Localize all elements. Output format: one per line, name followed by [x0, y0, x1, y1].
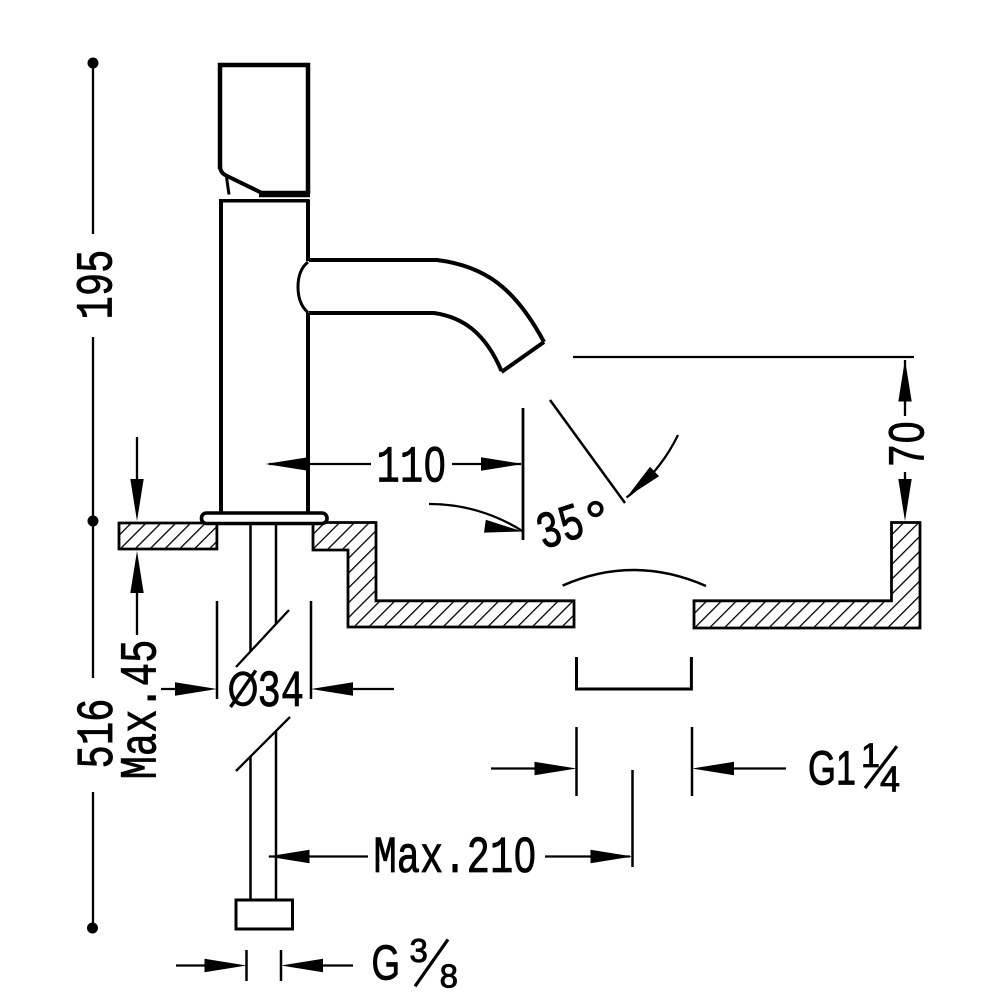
counter left slab (hatched) — [119, 523, 217, 549]
70 dimension — [573, 356, 914, 358]
label O34 — [231, 673, 255, 704]
35 degree water direction line — [550, 400, 625, 503]
svg-text:1: 1 — [861, 737, 880, 775]
Max.45 dimension — [136, 437, 138, 495]
faucet handle — [220, 65, 310, 195]
Max.210 dimension — [268, 850, 310, 863]
faucet body — [219, 200, 310, 513]
O34 dimension — [216, 601, 219, 699]
svg-text:G1: G1 — [808, 742, 856, 795]
drain hole U outline — [577, 657, 692, 689]
110 dimension — [269, 463, 371, 465]
svg-text:8: 8 — [440, 958, 458, 995]
svg-text:3: 3 — [410, 932, 428, 969]
water surface arc — [563, 570, 706, 586]
pipe break marks — [236, 610, 289, 667]
35 degree arc left — [429, 504, 523, 532]
spout outlet extension line — [522, 408, 525, 540]
35 degree arc right — [627, 435, 679, 498]
supply connector nut — [236, 900, 293, 929]
G1 1/4 dimension — [575, 727, 578, 796]
G 3/8 dimension — [245, 950, 248, 981]
svg-text:195: 195 — [68, 250, 127, 320]
basin right step (hatched) — [313, 523, 574, 628]
basin far-right step (hatched) — [694, 523, 920, 629]
svg-text:Max.210: Max.210 — [373, 829, 536, 888]
svg-text:34: 34 — [258, 663, 305, 722]
svg-text:G: G — [372, 936, 401, 990]
svg-text:4: 4 — [880, 759, 900, 800]
base flange — [202, 513, 328, 524]
supply pipes — [251, 525, 277, 899]
spout — [309, 260, 544, 372]
svg-text:Max.45: Max.45 — [112, 640, 171, 780]
left dimension line with dots (195 / 516) — [92, 63, 94, 928]
